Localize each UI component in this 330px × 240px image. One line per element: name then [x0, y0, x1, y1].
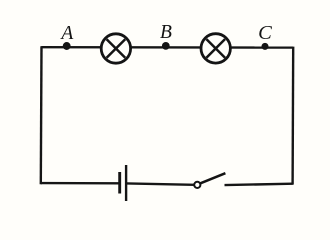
- svg-text:C: C: [258, 22, 272, 44]
- svg-text:B: B: [160, 22, 172, 43]
- svg-text:A: A: [59, 23, 73, 44]
